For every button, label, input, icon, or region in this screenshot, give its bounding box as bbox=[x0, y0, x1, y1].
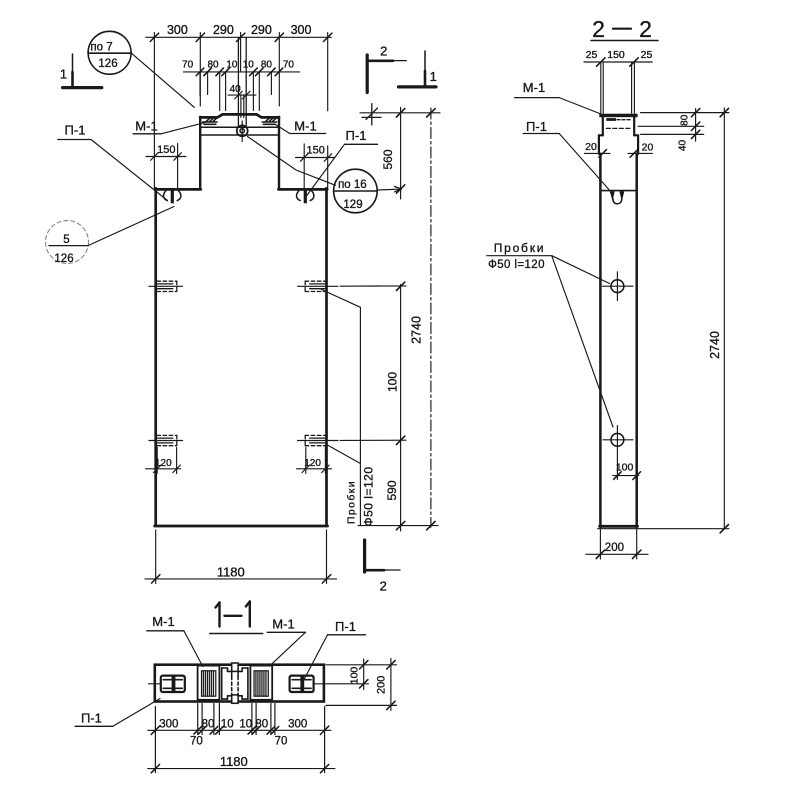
bottom dim 1180 (section 1-1) bbox=[148, 764, 335, 772]
section mark 1 (left) bbox=[63, 54, 102, 88]
plug lower-left (dashed) bbox=[149, 435, 183, 445]
svg-text:М-1: М-1 bbox=[152, 614, 174, 629]
svg-text:70: 70 bbox=[275, 736, 288, 748]
top dimension row 300/290/290/300 bbox=[146, 33, 331, 189]
svg-text:5: 5 bbox=[63, 234, 69, 246]
svg-text:300: 300 bbox=[288, 719, 307, 731]
title 2-2 bbox=[592, 16, 652, 42]
svg-text:10: 10 bbox=[239, 719, 252, 731]
overall 2740 (section 2-2) bbox=[598, 108, 729, 529]
svg-text:10: 10 bbox=[243, 60, 255, 71]
svg-text:300: 300 bbox=[159, 719, 178, 731]
svg-text:М-1: М-1 bbox=[135, 119, 157, 134]
keyway notch top center bbox=[232, 663, 238, 671]
embedded item M-1 right hatched (section 1-1) bbox=[250, 666, 272, 700]
svg-text:П-1: П-1 bbox=[346, 128, 367, 143]
dimension 120 under lower-left plug bbox=[146, 448, 181, 474]
top row labels bbox=[167, 23, 312, 37]
svg-text:290: 290 bbox=[213, 23, 234, 37]
svg-text:560: 560 bbox=[381, 149, 395, 169]
overall 2740 dim line (main view, dash-dot) bbox=[430, 108, 432, 527]
svg-text:1: 1 bbox=[430, 69, 437, 84]
svg-text:290: 290 bbox=[251, 23, 272, 37]
svg-text:25: 25 bbox=[586, 49, 598, 61]
svg-text:2740: 2740 bbox=[708, 331, 722, 359]
embedded item M-1 left hatched (section 1-1) bbox=[198, 666, 220, 700]
svg-text:70: 70 bbox=[182, 60, 194, 71]
anchor loop rebar verticals above head bbox=[237, 38, 239, 126]
svg-text:200: 200 bbox=[605, 542, 624, 554]
title 1-1 bbox=[216, 602, 250, 627]
shoulder line in section bbox=[600, 190, 636, 192]
plug upper-right (dashed) bbox=[298, 281, 339, 291]
loop anchor hooks in section bbox=[610, 191, 625, 204]
svg-text:М-1: М-1 bbox=[294, 119, 316, 134]
section 2-2: top plate M-1 (thick cap) bbox=[599, 114, 637, 118]
dims 80/40 right of section head bbox=[638, 109, 729, 142]
svg-text:70: 70 bbox=[190, 736, 203, 748]
embedded plate P-1 right (section 1-1) bbox=[290, 676, 369, 692]
plug note (section 2-2) bbox=[488, 241, 545, 271]
svg-text:10: 10 bbox=[221, 719, 234, 731]
dimension 40 at head center bbox=[228, 91, 256, 99]
svg-text:2740: 2740 bbox=[409, 316, 423, 344]
right vertical dim line 560/100/590 bbox=[340, 108, 440, 532]
recess inner plate bar and hidden lines bbox=[606, 118, 616, 121]
small tick cross at x=371 bbox=[362, 104, 381, 126]
svg-text:80: 80 bbox=[202, 719, 215, 731]
svg-text:100: 100 bbox=[386, 372, 400, 392]
lifting loop right shoulder bbox=[297, 190, 314, 204]
svg-text:120: 120 bbox=[155, 458, 172, 469]
plug hole upper (section 2-2) bbox=[603, 272, 634, 301]
svg-text:Пробки: Пробки bbox=[346, 480, 358, 524]
callout circle po16/129 bbox=[248, 137, 378, 213]
svg-text:по 16: по 16 bbox=[338, 179, 367, 191]
embedded plate P-1 left (section 1-1) bbox=[149, 676, 185, 692]
M-1 plate hatch right bbox=[262, 118, 276, 124]
svg-text:10: 10 bbox=[226, 60, 238, 71]
dim 20 right (section 2-2) bbox=[628, 150, 653, 158]
svg-text:П-1: П-1 bbox=[81, 711, 102, 726]
svg-text:100: 100 bbox=[616, 461, 634, 473]
head inner horizontal lines bbox=[201, 126, 279, 128]
svg-text:80: 80 bbox=[255, 719, 268, 731]
bottom dims row 300/80/10/10/80/300 and 70/70 (section 1-1) bbox=[148, 704, 331, 773]
svg-text:300: 300 bbox=[167, 23, 188, 37]
dimension 150 left bbox=[146, 144, 186, 190]
svg-text:Пробки: Пробки bbox=[494, 241, 546, 255]
lifting loop left shoulder bbox=[164, 190, 181, 204]
dim 100 at lower plug (section 2-2) bbox=[613, 454, 641, 480]
svg-text:Ф50 l=120: Ф50 l=120 bbox=[361, 467, 375, 527]
svg-text:20: 20 bbox=[585, 141, 597, 153]
main front view: column body outline bbox=[155, 188, 328, 526]
section 2-2: shaft bbox=[600, 154, 638, 527]
svg-text:150: 150 bbox=[607, 49, 625, 61]
arrow at shoulder level pointing to dim line bbox=[378, 186, 402, 191]
svg-text:20: 20 bbox=[642, 142, 654, 154]
bottom dim 200 (section 2-2) bbox=[586, 529, 648, 560]
bottom dimension 1180 (main view) bbox=[145, 530, 337, 584]
right dims 100/200 (section 1-1) bbox=[326, 659, 397, 711]
main front view: column head outline bbox=[200, 114, 279, 189]
plug note (rotated) near main view bbox=[346, 467, 376, 527]
svg-text:40: 40 bbox=[230, 84, 242, 95]
svg-text:П-1: П-1 bbox=[526, 119, 547, 134]
svg-text:1: 1 bbox=[60, 67, 67, 82]
keyway notch bottom center bbox=[232, 695, 238, 703]
plug upper-left (dashed) bbox=[149, 281, 183, 291]
svg-text:2: 2 bbox=[639, 16, 652, 42]
section 1-1 outer rectangle bbox=[155, 665, 324, 702]
svg-text:150: 150 bbox=[157, 144, 175, 156]
svg-text:80: 80 bbox=[207, 60, 219, 71]
head center hole circle bbox=[237, 125, 248, 136]
svg-text:Ф50 l=120: Ф50 l=120 bbox=[488, 259, 545, 271]
svg-text:126: 126 bbox=[54, 253, 73, 265]
svg-text:120: 120 bbox=[304, 458, 321, 469]
svg-text:300: 300 bbox=[291, 23, 312, 37]
section mark 2 (bottom) bbox=[365, 540, 400, 572]
svg-text:129: 129 bbox=[343, 199, 362, 211]
svg-text:200: 200 bbox=[376, 676, 388, 694]
svg-text:1180: 1180 bbox=[217, 565, 245, 580]
svg-text:590: 590 bbox=[385, 480, 399, 500]
svg-text:100: 100 bbox=[348, 667, 360, 685]
dimension 120 under lower-right plug bbox=[297, 448, 332, 474]
svg-text:М-1: М-1 bbox=[523, 80, 545, 95]
top dim 25/150/25 bbox=[584, 62, 652, 113]
callout circle po7/126 bbox=[88, 31, 194, 107]
svg-text:70: 70 bbox=[283, 60, 295, 71]
leaders from right plugs to plug note bbox=[322, 290, 361, 526]
plug hole lower (section 2-2) bbox=[603, 426, 633, 454]
section mark 2 (top) bbox=[367, 55, 406, 93]
svg-text:25: 25 bbox=[641, 49, 653, 61]
central connector I-shape (section 1-1) bbox=[222, 668, 248, 699]
second dimension row 70/80/10/10/80/70 bbox=[183, 72, 299, 111]
svg-text:150: 150 bbox=[307, 145, 325, 157]
svg-text:2: 2 bbox=[592, 16, 605, 42]
svg-text:80: 80 bbox=[261, 60, 273, 71]
svg-text:40: 40 bbox=[678, 140, 689, 152]
svg-text:П-1: П-1 bbox=[65, 123, 86, 138]
section 2-2: head with recess bbox=[599, 117, 638, 154]
svg-text:80: 80 bbox=[679, 114, 690, 126]
dim 20 left (section 2-2) bbox=[585, 150, 611, 158]
svg-text:2: 2 bbox=[380, 44, 387, 59]
M-1 plate hatch left bbox=[203, 118, 217, 124]
svg-text:2: 2 bbox=[380, 579, 387, 594]
svg-text:126: 126 bbox=[98, 58, 117, 70]
svg-text:П-1: П-1 bbox=[335, 619, 356, 634]
dimension 150 right bbox=[296, 144, 336, 189]
section mark 1 (right) bbox=[399, 51, 437, 87]
svg-text:по 7: по 7 bbox=[90, 42, 112, 54]
plug lower-right (dashed) bbox=[298, 435, 339, 445]
callout circle 5/126 (faint dashed) bbox=[46, 207, 175, 264]
svg-text:1180: 1180 bbox=[220, 754, 248, 769]
svg-text:М-1: М-1 bbox=[272, 617, 294, 632]
